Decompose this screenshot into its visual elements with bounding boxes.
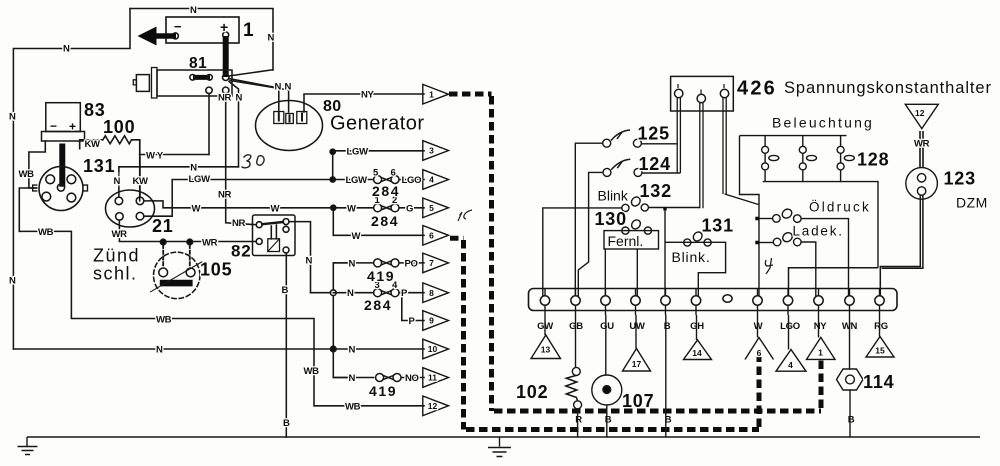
svg-text:NY: NY: [814, 321, 828, 332]
svg-text:6: 6: [429, 231, 434, 241]
svg-text:N: N: [275, 82, 282, 93]
svg-text:N: N: [156, 345, 163, 356]
svg-text:13: 13: [541, 345, 551, 355]
svg-text:1: 1: [818, 348, 823, 358]
svg-text:7: 7: [429, 258, 434, 268]
svg-text:9: 9: [429, 316, 434, 326]
svg-text:4: 4: [429, 175, 434, 185]
svg-text:8: 8: [429, 288, 434, 298]
svg-text:UW: UW: [629, 321, 645, 332]
svg-text:284: 284: [364, 297, 392, 313]
svg-text:W: W: [347, 203, 356, 214]
svg-text:1: 1: [243, 20, 254, 41]
svg-text:LGW: LGW: [189, 174, 211, 185]
svg-text:W: W: [192, 204, 201, 215]
svg-text:−: −: [174, 19, 182, 34]
svg-text:82: 82: [231, 242, 252, 261]
svg-text:WR: WR: [112, 229, 128, 240]
svg-text:4: 4: [788, 360, 793, 370]
svg-text:+: +: [69, 120, 76, 134]
svg-text:LGO: LGO: [780, 321, 800, 332]
svg-text:128: 128: [857, 150, 889, 170]
svg-text:GU: GU: [600, 321, 614, 332]
svg-text:Blink.: Blink.: [672, 249, 711, 265]
svg-text:N: N: [9, 276, 16, 287]
svg-text:284: 284: [372, 183, 400, 199]
svg-text:B: B: [664, 321, 671, 332]
svg-text:12: 12: [428, 401, 438, 411]
svg-text:KW: KW: [133, 176, 149, 187]
svg-text:419: 419: [367, 268, 395, 284]
svg-text:G: G: [406, 203, 413, 214]
svg-text:419: 419: [369, 383, 397, 399]
svg-text:Generator: Generator: [330, 113, 425, 135]
svg-text:W Y: W Y: [146, 150, 164, 161]
svg-text:N: N: [349, 373, 356, 384]
svg-text:N: N: [268, 33, 275, 44]
svg-text:B: B: [848, 415, 855, 426]
svg-text:100: 100: [103, 117, 135, 137]
svg-text:B: B: [283, 418, 290, 429]
svg-text:WB: WB: [19, 169, 35, 180]
svg-text:WR: WR: [202, 237, 218, 248]
svg-text:NR: NR: [232, 218, 246, 229]
svg-text:Blink: Blink: [598, 188, 629, 204]
svg-text:GB: GB: [569, 321, 583, 332]
svg-text:RG: RG: [874, 321, 888, 332]
svg-text:NY: NY: [361, 89, 375, 100]
svg-text:B: B: [605, 415, 612, 426]
svg-text:schl.: schl.: [93, 264, 138, 284]
svg-text:LGW: LGW: [347, 146, 369, 157]
svg-text:123: 123: [944, 169, 976, 189]
svg-text:Zünd: Zünd: [93, 246, 140, 266]
svg-text:N: N: [190, 5, 197, 16]
svg-text:10: 10: [428, 344, 438, 354]
svg-text:W: W: [271, 203, 280, 214]
svg-text:Beleuchtung: Beleuchtung: [772, 115, 874, 131]
svg-text:105: 105: [200, 260, 232, 280]
svg-text:Ladek.: Ladek.: [793, 224, 844, 239]
svg-text:WB: WB: [156, 314, 172, 325]
svg-text:6: 6: [757, 348, 762, 358]
svg-text:5: 5: [429, 203, 434, 213]
svg-text:124: 124: [639, 154, 671, 174]
svg-text:W: W: [352, 231, 361, 242]
svg-text:WB: WB: [38, 227, 54, 238]
svg-text:12: 12: [915, 108, 925, 118]
svg-text:WB: WB: [345, 401, 361, 412]
svg-text:R: R: [575, 415, 582, 426]
svg-text:LGW: LGW: [346, 175, 368, 186]
svg-text:81: 81: [189, 55, 207, 72]
svg-text:NO: NO: [405, 373, 419, 384]
svg-text:Öldruck: Öldruck: [809, 200, 871, 215]
svg-text:3: 3: [429, 146, 434, 156]
svg-text:N: N: [9, 112, 16, 123]
svg-text:Spannungskonstanthalter: Spannungskonstanthalter: [784, 79, 992, 97]
svg-text:P: P: [409, 316, 416, 327]
svg-text:N: N: [236, 93, 243, 104]
svg-text:131: 131: [83, 156, 115, 176]
svg-text:107: 107: [622, 391, 654, 411]
svg-text:N: N: [63, 44, 70, 55]
svg-text:114: 114: [863, 372, 894, 392]
svg-text:21: 21: [152, 216, 174, 236]
svg-text:125: 125: [638, 124, 670, 144]
svg-text:LGO: LGO: [402, 175, 422, 186]
svg-text:131: 131: [702, 216, 734, 236]
svg-text:NR: NR: [218, 189, 232, 200]
svg-text:132: 132: [640, 181, 672, 201]
svg-text:KW: KW: [85, 139, 101, 150]
svg-text:N: N: [114, 176, 121, 187]
svg-text:11: 11: [428, 373, 437, 383]
svg-text:130: 130: [595, 209, 627, 229]
svg-text:WR: WR: [914, 139, 930, 150]
svg-text:B: B: [282, 285, 289, 296]
svg-text:−: −: [50, 119, 57, 133]
svg-text:N: N: [349, 345, 356, 356]
svg-text:17: 17: [632, 359, 642, 369]
svg-text:15: 15: [875, 346, 885, 356]
svg-text:Fernl.: Fernl.: [608, 233, 644, 249]
svg-text:N: N: [349, 258, 356, 269]
svg-text:GH: GH: [690, 321, 704, 332]
svg-text:N: N: [190, 162, 197, 173]
svg-text:14: 14: [692, 348, 702, 358]
svg-text:426: 426: [737, 78, 777, 100]
svg-text:6: 6: [391, 167, 396, 178]
svg-text:WB: WB: [304, 366, 320, 377]
svg-text:102: 102: [516, 382, 548, 402]
svg-text:N: N: [347, 288, 354, 299]
svg-text:1: 1: [429, 89, 434, 99]
svg-text:N: N: [306, 255, 313, 266]
svg-text:PO: PO: [405, 258, 418, 269]
svg-text:NR: NR: [218, 93, 232, 104]
svg-text:284: 284: [371, 213, 399, 229]
svg-text:P: P: [401, 288, 408, 299]
svg-text:N: N: [285, 82, 292, 93]
svg-text:DZM: DZM: [956, 195, 988, 211]
svg-text:+: +: [220, 19, 228, 35]
